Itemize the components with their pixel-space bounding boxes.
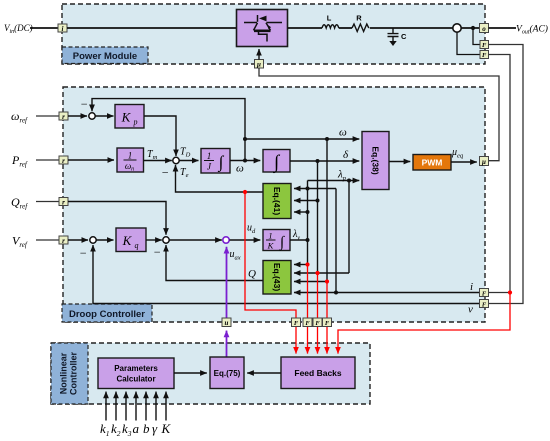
wire k1 input (105, 392, 107, 421)
svg-text:Vout(AC): Vout(AC) (516, 24, 548, 36)
node r tag P (59, 156, 68, 165)
svg-text:PWM: PWM (422, 158, 443, 168)
wire pc to eq75 (174, 372, 207, 374)
power module label (62, 47, 148, 64)
svg-text:F: F (482, 301, 487, 308)
svg-text:γ: γ (152, 421, 158, 436)
svg-text:u: u (225, 319, 229, 327)
svg-text:Droop Controller: Droop Controller (69, 309, 145, 320)
svg-text:F: F (325, 320, 330, 327)
svg-text:i: i (62, 25, 64, 33)
wire sum2 to violet sum (169, 239, 222, 241)
svg-text:Controller: Controller (69, 352, 79, 395)
wire Q_ref lead (36, 201, 59, 203)
wire Kq to sum2 (146, 239, 162, 241)
node F tag bottom 4 (323, 318, 332, 327)
svg-text:Eq.(41): Eq.(41) (272, 187, 282, 216)
red tap i (338, 293, 510, 354)
wire dc bus to inverter (67, 27, 237, 29)
svg-text:−: − (80, 97, 88, 111)
svg-text:i: i (470, 281, 473, 293)
node junction lambda_p row (347, 179, 351, 183)
svg-text:r: r (62, 157, 65, 165)
wire vertical omega tap (326, 139, 328, 282)
wire omega feedback (92, 99, 245, 161)
wire lambda_v out (290, 239, 308, 241)
svg-text:Eq.(75): Eq.(75) (214, 369, 241, 378)
wire v row (93, 245, 480, 304)
node junction eq41 row1 (306, 187, 310, 191)
wire vertical delta tap (317, 161, 319, 273)
node i tag (480, 289, 489, 298)
node F tag bottom 1 (292, 318, 301, 327)
wire k3 input (125, 392, 127, 421)
svg-text:Feed Backs: Feed Backs (294, 368, 342, 378)
node F tag bottom 3 (313, 318, 322, 327)
inductor L (322, 25, 339, 28)
node junction dot (471, 26, 475, 30)
node r tag V (59, 236, 68, 245)
node junction eq41 row3 (306, 210, 310, 214)
violet u line up from Eq75 (226, 331, 228, 357)
svg-text:F: F (305, 320, 310, 327)
node junction i row (334, 291, 338, 295)
wire eq38 to pwm (389, 161, 410, 163)
red tap Te (245, 192, 296, 318)
svg-text:K: K (121, 110, 132, 125)
svg-text:1: 1 (128, 151, 133, 161)
node sum V circle (90, 237, 96, 243)
svg-text:−: − (161, 166, 169, 180)
wire 1/J out to integrator (230, 160, 260, 162)
svg-text:F: F (315, 320, 320, 327)
svg-text:Q: Q (248, 268, 256, 280)
svg-text:μ: μ (481, 158, 486, 166)
svg-text:1: 1 (207, 151, 212, 161)
node v tag (480, 300, 489, 309)
node sum2 circle (163, 237, 169, 243)
violet u line tag to sum (226, 247, 228, 318)
op block Kq (116, 228, 146, 252)
svg-text:C: C (401, 32, 407, 41)
wire R to node (370, 27, 453, 29)
wire a input (135, 392, 137, 421)
wire Q from eq43 to sum2 (166, 245, 263, 281)
op block Eq38 (362, 132, 389, 190)
wire Vin DC lead (30, 27, 58, 29)
op block Kp (115, 105, 144, 129)
wire tag to 1/wn (68, 159, 114, 161)
node F tag top2 (480, 51, 489, 60)
wire eq41 input row1 from i (294, 188, 336, 190)
red tap lambda net (307, 265, 309, 318)
svg-text:b: b (143, 421, 150, 436)
wire eq41 input row3 (294, 211, 308, 213)
wire vertical i tap (335, 189, 337, 293)
node junction omega tap (325, 137, 329, 141)
inverter U1 (237, 10, 288, 47)
wire eq43 row1 (294, 264, 308, 266)
svg-text:Nonlinear: Nonlinear (59, 352, 69, 394)
svg-text:−: − (79, 246, 87, 260)
wire sum1 to Kp (96, 115, 114, 117)
op block parameters calculator (98, 358, 174, 389)
svg-text:Eq.(38): Eq.(38) (371, 146, 381, 175)
wire i carrier right side (489, 55, 511, 293)
svg-text:δ: δ (343, 149, 349, 161)
nonlinear controller region (51, 343, 370, 404)
svg-text:v: v (468, 304, 473, 316)
svg-text:Power Module: Power Module (73, 51, 137, 62)
wire L to R (339, 27, 352, 29)
svg-text:r: r (62, 113, 65, 121)
op block integrator (263, 150, 290, 175)
wire eq43 row3 (294, 281, 327, 283)
node dot omega (243, 159, 247, 163)
svg-text:L: L (327, 14, 332, 23)
wire k2 input (115, 392, 117, 421)
wire vertical lambda net (307, 181, 309, 265)
wire omega_ref lead (36, 115, 59, 117)
power module region (62, 4, 485, 64)
node Vin tag (58, 24, 67, 33)
op block 1/wn (117, 148, 144, 173)
op block 1/K integrator (263, 230, 290, 251)
wire red arrow F4 to feedbacks (326, 327, 328, 354)
wire dot down to F tag v (473, 28, 480, 45)
wire mu return path (259, 68, 499, 161)
resistor R (352, 24, 369, 32)
svg-text:R: R (356, 14, 362, 23)
red tap s2 (317, 273, 319, 318)
svg-text:1: 1 (268, 231, 272, 241)
op block feed backs (281, 357, 355, 389)
svg-text:p: p (133, 118, 138, 127)
svg-text:μ: μ (256, 61, 261, 69)
wire gamma input (155, 392, 157, 421)
node mu tag right (480, 157, 489, 167)
node junction eq41 row2 (316, 199, 320, 203)
wire feedbacks to eq75 (247, 372, 281, 374)
svg-text:−: − (153, 245, 161, 259)
svg-text:o: o (482, 25, 486, 33)
wire Te from Eq41 to sum T (176, 165, 264, 192)
svg-text:F: F (482, 52, 487, 59)
wire delta row (290, 160, 359, 162)
node junction lambda_v (306, 238, 310, 242)
wire red arrow F1 to feedbacks (295, 327, 297, 354)
wire red arrow F3 to feedbacks (317, 327, 319, 354)
wire T to 1/J (179, 160, 198, 162)
wire violet sum to 1/K (230, 239, 261, 241)
node r tag Q (59, 198, 68, 207)
wire vertical s2 net (348, 181, 350, 274)
red tap s3 (326, 282, 328, 318)
node output circle (453, 24, 461, 32)
node F tag top1 (480, 41, 489, 50)
droop controller label (62, 304, 152, 322)
capacitor C (388, 28, 408, 46)
wire to Vout label (489, 27, 517, 29)
node u tag bottom border (222, 318, 231, 327)
svg-text:q: q (135, 241, 139, 250)
wire v carrier right side (489, 45, 524, 304)
nonlinear controller label (51, 343, 88, 404)
op block 1/J integrator (201, 149, 230, 174)
wire sumV to Kq (97, 239, 114, 241)
wire Kp out to TD (144, 116, 176, 156)
svg-text:Eq.(43): Eq.(43) (272, 263, 282, 292)
node sum omega circle (89, 113, 95, 119)
node O tag (480, 24, 489, 34)
svg-text:K: K (122, 233, 133, 248)
node dot omega row (243, 137, 247, 141)
wire tag to sum1 (68, 115, 87, 117)
node sum T circle (173, 157, 179, 163)
wire pwm to mu tag (451, 161, 477, 163)
svg-text:K: K (161, 421, 172, 436)
wire red arrow F2 to feedbacks (307, 327, 309, 354)
wire P_ref lead (36, 159, 59, 161)
svg-text:r: r (62, 237, 65, 245)
svg-text:ω: ω (339, 127, 347, 139)
wire K input (165, 392, 167, 421)
node mu tag under inverter (255, 60, 264, 69)
svg-text:r: r (62, 198, 65, 206)
wire i row (294, 292, 480, 294)
wire eq43 row2 (294, 272, 349, 274)
svg-text:F: F (482, 42, 487, 49)
wire V_ref lead (36, 239, 59, 241)
op block Eq41 (263, 184, 291, 219)
wire lambda row to eq38 (308, 180, 360, 182)
wire Qref to sum2 (68, 202, 166, 235)
svg-text:Calculator: Calculator (116, 375, 155, 384)
wire circle to O tag (461, 27, 479, 29)
wire circle down to F tag i (457, 32, 480, 54)
wire mu arrow into inverter (258, 49, 260, 60)
op block PWM (413, 155, 451, 171)
svg-text:a: a (133, 421, 140, 436)
wire inverter output (288, 27, 323, 29)
wire tag to sumV (68, 239, 88, 241)
svg-text:Parameters: Parameters (114, 364, 158, 373)
svg-text:F: F (294, 320, 299, 327)
droop controller region (63, 87, 485, 322)
node junction delta tap (316, 159, 320, 163)
wire Tm (144, 160, 172, 162)
wire b input (145, 392, 147, 421)
op block Eq75 (210, 357, 244, 389)
svg-text:F: F (482, 290, 487, 297)
node F tag bottom 2 (303, 318, 312, 327)
node r tag omega (59, 112, 68, 121)
wire omega row to eq38 (245, 138, 359, 140)
wire eq41 input row2 (294, 200, 318, 202)
op block Eq43 (263, 261, 291, 295)
node violet circle (223, 237, 229, 243)
svg-text:ω: ω (236, 163, 244, 175)
